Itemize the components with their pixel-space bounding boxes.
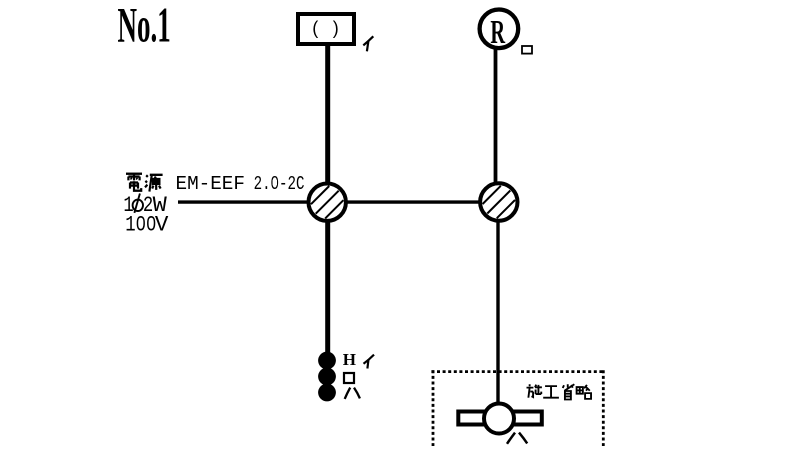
svg-text:R: R bbox=[490, 14, 505, 52]
svg-text:EM-EEF: EM-EEF bbox=[176, 173, 245, 195]
svg-text:2.0-2C: 2.0-2C bbox=[254, 174, 305, 196]
svg-text:V: V bbox=[155, 211, 169, 237]
svg-text:H: H bbox=[343, 350, 356, 369]
svg-text:No.1: No.1 bbox=[118, 0, 171, 53]
svg-text:(: ( bbox=[312, 18, 318, 38]
svg-text:): ) bbox=[333, 18, 339, 38]
